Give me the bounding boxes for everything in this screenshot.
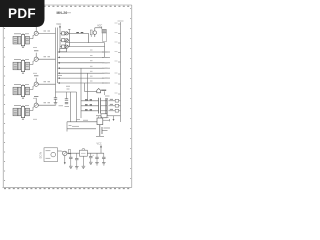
vertical wire W1 (80, 68, 82, 118)
capacitor C2 branch (75, 153, 79, 169)
IC U4 box (97, 118, 103, 125)
lower row1 resistor (81, 100, 107, 101)
wire bus2 (58, 50, 110, 53)
wire bus4 (58, 61, 110, 64)
box U3 below LEDs (60, 48, 67, 51)
label dashes net92 (66, 85, 70, 87)
capacitor C3 branch (89, 153, 94, 164)
osc label dash (72, 125, 79, 127)
DC jack J5 (44, 148, 58, 162)
svg-text:MN-26: MN-26 (57, 11, 68, 15)
output node row (85, 89, 107, 96)
diode taps right row3 (109, 109, 121, 112)
label R-ticks J4 wire (44, 102, 47, 104)
wire J4 out (38, 104, 55, 106)
capacitor C7 (65, 99, 68, 100)
battery label (104, 127, 111, 129)
osc label tick (69, 125, 72, 127)
label text lower (83, 119, 88, 121)
vertical wire W5 (76, 92, 78, 122)
wire J1 out (38, 32, 55, 34)
resistor R7 + LED D7 row3 (60, 45, 69, 48)
wire bus8 (58, 81, 110, 84)
page background (0, 0, 149, 198)
sheet border left ruler (2, 26, 4, 188)
rail node A vertical (57, 28, 59, 84)
connector J3 (13, 78, 38, 99)
C8 label dash (65, 106, 70, 108)
osc mid line (67, 128, 96, 130)
regulator U5 (82, 149, 85, 152)
wire bus7 (58, 76, 110, 79)
LED rail right vertical (68, 33, 70, 46)
resistor R1 pair on top wire (69, 33, 88, 43)
rail pin ticks (118, 24, 121, 94)
connector header bars right (105, 98, 107, 116)
jack wires (58, 150, 62, 152)
capacitor C8 (65, 102, 68, 103)
vertical wire W4 (70, 92, 72, 122)
IC U2 body (103, 33, 107, 42)
gnd drop below header (113, 116, 115, 120)
wire J3 out (38, 83, 55, 85)
fuse F1 (68, 150, 70, 154)
wire net92 horizontal (56, 91, 77, 93)
bus right turn-down (104, 43, 106, 58)
vertical wire W2 (87, 73, 89, 101)
inductor L1 (90, 30, 92, 35)
VCC label J3 (34, 75, 38, 77)
wire bus3 (58, 55, 110, 58)
net label mid (58, 75, 63, 77)
battery bottom line (96, 136, 104, 138)
wire bus5 (58, 66, 110, 69)
LED D4 top (93, 28, 102, 37)
osc box left vertical (66, 122, 68, 132)
svg-text:VCC: VCC (97, 143, 102, 146)
capacitor C4 branch (95, 153, 99, 165)
lower row2 resistor (81, 105, 107, 106)
battery B1 bars (99, 125, 101, 136)
svg-text:VCC: VCC (97, 24, 102, 27)
node down wire with arrow (64, 156, 66, 163)
sheet border right ruler (131, 5, 133, 188)
wire bus upper pair (66, 43, 105, 47)
label R-ticks J2 wire (44, 56, 47, 58)
resistor R5 + LED D5 row1 (60, 32, 69, 35)
long right rail (120, 22, 122, 122)
VCC label J4 (34, 96, 38, 98)
sheet border bottom ruler (3, 186, 132, 188)
capacitor C7 stem (66, 92, 68, 99)
connector J2 (13, 53, 38, 74)
rail top label (118, 20, 124, 22)
diode taps right row1 (109, 99, 121, 102)
capacitor C9 on rail B (54, 98, 57, 99)
svg-text:VCC: VCC (56, 23, 61, 26)
connector header bars (98, 98, 100, 114)
regulator gnd pin (82, 156, 84, 166)
rail node B vertical (55, 28, 57, 98)
wire bus6 (58, 71, 110, 74)
resistor R6 + LED D6 row2 (60, 39, 69, 42)
svg-text:PDF: PDF (8, 6, 36, 21)
connector J1 (13, 27, 38, 48)
label R-ticks J3 wire (44, 81, 47, 83)
lower row3 resistor (81, 110, 107, 111)
label R-ticks J1 wire (44, 30, 47, 32)
diode taps right row2 (109, 104, 121, 107)
power rail (67, 152, 104, 154)
connector J4 (13, 99, 38, 120)
rail VCC vertical (59, 30, 61, 49)
row4 with box (96, 114, 121, 118)
vertical wire W3 (84, 83, 86, 92)
IC U2 (102, 29, 106, 33)
osc top label (76, 118, 80, 120)
osc box top line (67, 121, 97, 123)
diode D9 node (63, 151, 67, 155)
rail pin labels (115, 23, 118, 93)
svg-text:DC IN: DC IN (40, 152, 43, 159)
row label bold dashes (110, 98, 113, 100)
sheet border top ruler (3, 4, 132, 6)
wire bus1 (69, 46, 104, 48)
VCC label J2 (34, 50, 38, 52)
capacitor C5 branch (102, 153, 106, 165)
wire J2 out (38, 58, 55, 60)
PDF badge (0, 0, 45, 27)
battery wire right (102, 130, 108, 132)
capacitor C1 branch (69, 153, 73, 168)
header label (105, 95, 110, 97)
ground rail B (54, 103, 58, 105)
